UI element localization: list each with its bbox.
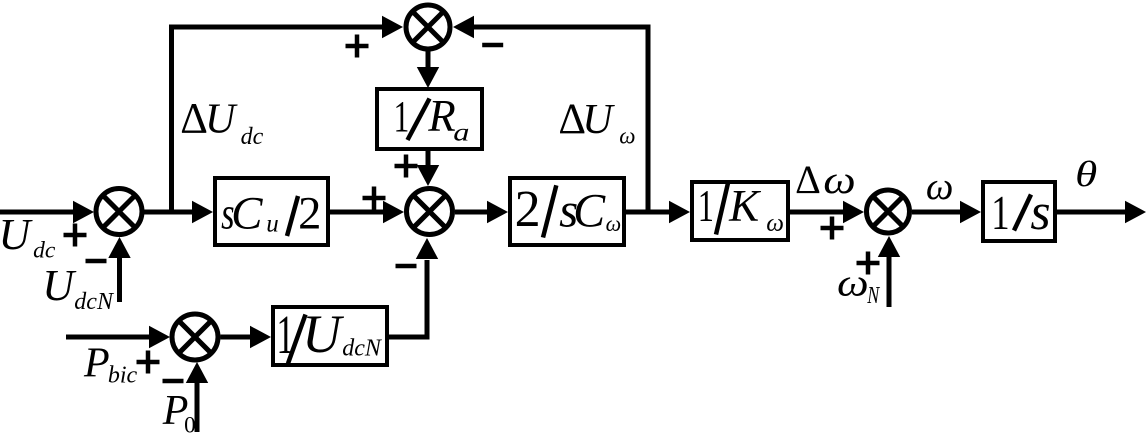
- svg-text:C: C: [231, 187, 263, 239]
- svg-text:0: 0: [184, 413, 196, 438]
- svg-text:dcN: dcN: [342, 336, 383, 362]
- svg-text:dc: dc: [33, 238, 56, 264]
- svg-text:ω: ω: [823, 158, 855, 202]
- svg-text:Δ: Δ: [795, 157, 821, 202]
- svg-text:P: P: [83, 340, 110, 386]
- svg-text:C: C: [573, 185, 606, 238]
- svg-text:Δ: Δ: [180, 96, 208, 143]
- svg-text:s: s: [1030, 184, 1050, 241]
- svg-text:dcN: dcN: [74, 289, 115, 315]
- svg-text:N: N: [866, 282, 880, 309]
- svg-text:θ: θ: [1075, 154, 1097, 194]
- svg-text:dc: dc: [241, 124, 264, 150]
- svg-text:1: 1: [276, 305, 294, 365]
- svg-text:R: R: [427, 91, 456, 141]
- svg-text:U: U: [42, 261, 77, 310]
- svg-text:2: 2: [298, 188, 321, 239]
- svg-text:U: U: [0, 210, 34, 259]
- svg-text:1: 1: [991, 186, 1009, 240]
- svg-text:U: U: [302, 304, 344, 364]
- svg-text:ω: ω: [837, 262, 869, 305]
- svg-text:bic: bic: [108, 363, 138, 389]
- svg-text:K: K: [728, 181, 761, 231]
- svg-text:2: 2: [515, 181, 541, 238]
- svg-text:ω: ω: [619, 123, 635, 148]
- svg-text:U: U: [205, 97, 238, 143]
- svg-text:U: U: [582, 97, 615, 143]
- svg-text:1: 1: [394, 93, 410, 141]
- svg-text:ω: ω: [606, 211, 622, 236]
- svg-text:ω: ω: [926, 165, 954, 208]
- svg-text:a: a: [453, 119, 469, 147]
- svg-text:1: 1: [698, 182, 714, 231]
- svg-text:u: u: [266, 210, 279, 237]
- svg-text:ω: ω: [766, 210, 784, 237]
